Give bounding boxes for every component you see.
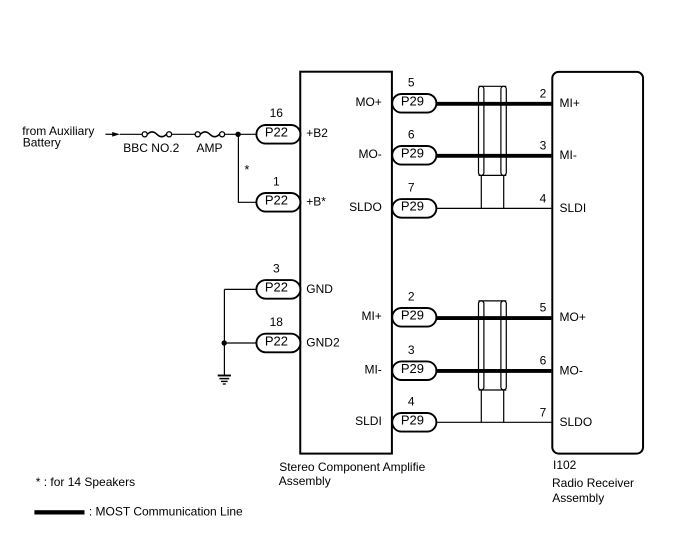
connector P22 pin 1 <box>256 193 300 212</box>
svg-text:+B2: +B2 <box>306 126 328 140</box>
svg-text:3: 3 <box>408 343 415 357</box>
svg-text:P29: P29 <box>401 199 424 214</box>
svg-text:: MOST Communication Line: : MOST Communication Line <box>89 504 243 518</box>
component box: Stereo Component Amplifier Assembly <box>300 72 392 454</box>
connector P29 pin 2 <box>392 308 436 327</box>
svg-text:P29: P29 <box>401 361 424 376</box>
wire: SLDO to SLDI shield drain line <box>436 207 551 209</box>
shield: upper twisted pair <box>479 86 507 175</box>
svg-text:Radio Receiver: Radio Receiver <box>552 476 634 490</box>
MOST line MI+ to MO+ <box>436 316 551 320</box>
wire: fuse BBC NO.2 to fuse AMP <box>172 133 196 135</box>
arrow: power feed direction <box>112 132 120 137</box>
svg-text:1: 1 <box>273 174 280 188</box>
component box: Radio Receiver Assembly I102 <box>552 72 643 454</box>
junction: ground bus node <box>222 340 227 345</box>
svg-text:5: 5 <box>540 300 547 314</box>
svg-text:MI+: MI+ <box>361 309 381 323</box>
svg-text:BBC NO.2: BBC NO.2 <box>123 141 179 155</box>
svg-text:4: 4 <box>408 394 415 408</box>
label: Stereo Component Amplifie Assembly <box>279 460 426 488</box>
wire: SLDI to SLDO shield drain line <box>436 421 551 423</box>
svg-text:+B*: +B* <box>306 195 326 209</box>
connector P29 pin 4 <box>392 413 436 432</box>
wire: lower shield drain right <box>503 390 505 422</box>
wire: arrow to fuse BBC NO.2 <box>120 133 142 135</box>
wire: branch to connector P22 pin 1 <box>238 201 257 203</box>
fuse AMP <box>195 132 225 137</box>
svg-text:P29: P29 <box>401 413 424 428</box>
connector P22 pin 18 <box>256 333 300 352</box>
wire: ground bus vertical <box>223 289 225 375</box>
svg-text:MI-: MI- <box>364 363 381 377</box>
connector P29 pin 3 <box>392 361 436 380</box>
junction: +B branch node <box>235 132 240 137</box>
svg-text:MO-: MO- <box>358 147 381 161</box>
svg-text:P29: P29 <box>401 94 424 109</box>
svg-text:3: 3 <box>540 138 547 152</box>
svg-text:MI+: MI+ <box>560 96 580 110</box>
fuse BBC NO.2 <box>142 132 172 137</box>
ground symbol <box>218 376 231 385</box>
connector P29 pin 5 <box>392 94 436 113</box>
svg-text:18: 18 <box>270 315 284 329</box>
svg-text:6: 6 <box>540 354 547 368</box>
svg-text:Battery: Battery <box>23 136 61 150</box>
svg-text:7: 7 <box>408 181 415 195</box>
wire: fuse AMP to connector P22 pin 16 <box>225 133 257 135</box>
svg-text:P29: P29 <box>401 146 424 161</box>
svg-text:P22: P22 <box>265 193 288 208</box>
svg-text:MO+: MO+ <box>560 310 586 324</box>
connector P29 pin 7 <box>392 199 436 218</box>
svg-text:5: 5 <box>408 75 415 89</box>
svg-text:P22: P22 <box>265 280 288 295</box>
svg-text:GND2: GND2 <box>306 335 340 349</box>
label: from Auxiliary Battery <box>22 124 94 150</box>
MOST line MI- to MO- <box>436 369 551 373</box>
svg-text:I102: I102 <box>553 458 577 472</box>
svg-text:Stereo Component Amplifie: Stereo Component Amplifie <box>279 460 425 474</box>
svg-text:2: 2 <box>408 289 415 303</box>
svg-text:2: 2 <box>540 86 547 100</box>
svg-text:Assembly: Assembly <box>552 491 604 505</box>
svg-text:Assembly: Assembly <box>279 474 331 488</box>
svg-text:SLDI: SLDI <box>560 201 587 215</box>
svg-text:7: 7 <box>540 405 547 419</box>
svg-text:*: * <box>244 162 249 177</box>
MOST line MO- to MI- <box>436 154 551 158</box>
svg-text:SLDO: SLDO <box>560 415 593 429</box>
svg-text:MO-: MO- <box>560 364 583 378</box>
wire: feed lead-in <box>105 133 113 135</box>
svg-text:MI-: MI- <box>560 148 577 162</box>
wire: branch down to +B* <box>237 134 239 202</box>
wire: upper shield drain right <box>503 175 505 208</box>
svg-text:SLDO: SLDO <box>349 200 382 214</box>
svg-text:P22: P22 <box>265 333 288 348</box>
shield: lower twisted pair <box>479 301 507 390</box>
svg-text:3: 3 <box>273 262 280 276</box>
wire: lower shield drain left <box>480 390 482 422</box>
svg-text:MO+: MO+ <box>355 95 381 109</box>
svg-text:SLDI: SLDI <box>355 414 382 428</box>
svg-text:P29: P29 <box>401 308 424 323</box>
svg-text:* : for 14 Speakers: * : for 14 Speakers <box>36 475 135 489</box>
wire: upper shield drain left <box>480 175 482 208</box>
wire: GND to ground bus <box>224 288 256 290</box>
svg-text:16: 16 <box>270 106 284 120</box>
wire: GND2 to ground bus <box>224 342 256 344</box>
legend: MOST communication line sample <box>34 510 84 514</box>
svg-text:AMP: AMP <box>197 141 223 155</box>
svg-text:GND: GND <box>306 282 333 296</box>
connector P22 pin 16 <box>256 125 300 144</box>
svg-text:P22: P22 <box>265 125 288 140</box>
label: I102 Radio Receiver Assembly <box>552 458 634 505</box>
connector P29 pin 6 <box>392 146 436 165</box>
svg-text:4: 4 <box>540 191 547 205</box>
svg-text:6: 6 <box>408 127 415 141</box>
MOST line MO+ to MI+ <box>436 102 551 106</box>
connector P22 pin 3 <box>256 280 300 299</box>
